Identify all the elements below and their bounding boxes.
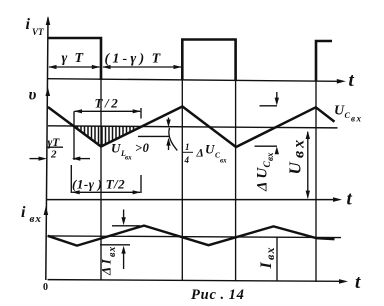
svg-text:υ: υ — [29, 87, 37, 104]
svg-text:4: 4 — [184, 155, 190, 165]
wire (1-gamma)T dimension line — [103, 66, 181, 68]
wire T/2 right arrowhead — [133, 109, 141, 113]
wire deltaU_C dimension up arrow — [276, 150, 278, 153]
node peak tick bottom plot — [112, 225, 140, 227]
node tick x=71.3 for (1-gamma)T/2 — [70, 165, 72, 193]
node tick line quarter-deltaU level — [138, 135, 170, 137]
wire deltaI down arrow — [123, 210, 125, 219]
node hatched area U_L>0 — [78, 126, 134, 146]
svg-text:2: 2 — [50, 149, 57, 161]
wire T/2 left arrowhead — [74, 109, 82, 113]
node average current line — [48, 236, 341, 238]
wire quarter-deltaU small up arrow — [168, 144, 170, 150]
svg-text:вх: вх — [125, 154, 132, 162]
wire gammaT/2 right outside arrow — [80, 158, 91, 160]
node tick x=141 for (1-gamma)T/2 — [140, 175, 142, 193]
node t-axis of bottom plot — [48, 280, 342, 282]
svg-text:U: U — [111, 141, 121, 156]
svg-text:вх: вх — [265, 152, 275, 161]
svg-text:вх: вх — [263, 246, 277, 260]
wire (1-gamma)T/2 dimension line — [72, 191, 140, 193]
svg-text:i: i — [21, 204, 26, 221]
wire (1-gamma)T/2 left arrowhead — [72, 190, 80, 194]
svg-text:Δ U: Δ U — [255, 167, 271, 192]
svg-text:VT: VT — [32, 27, 44, 37]
svg-text:1: 1 — [185, 142, 190, 152]
label I_vx rotated — [258, 246, 277, 269]
wire I_vx level line — [276, 237, 278, 281]
svg-text:Δ I: Δ I — [99, 258, 114, 276]
wire gammaT/2 fraction bar — [48, 146, 64, 148]
svg-text:вх: вх — [30, 213, 42, 225]
wire leader curve to 1/4 deltaU label — [169, 128, 177, 151]
node reference line at pulse1 fall x=101 — [100, 80, 102, 280]
svg-text:0: 0 — [43, 282, 48, 293]
svg-text:вх: вх — [107, 246, 118, 257]
svg-text:Δ: Δ — [196, 148, 204, 160]
wire t-axis arrowhead bottom plot — [339, 279, 348, 284]
wire T/2 dimension line — [75, 110, 141, 112]
svg-text:i: i — [26, 16, 31, 33]
wire quarter-deltaU small down arrow — [168, 118, 170, 122]
wire gamma-T dimension line — [49, 66, 100, 68]
node t-axis of middle plot — [47, 199, 335, 201]
svg-text:C: C — [345, 111, 351, 120]
wire U_vx dimension line with arrows — [307, 132, 309, 198]
node tick x=141 below T/2 — [140, 108, 142, 119]
wire i_vx axis arrow up bottom plot — [44, 206, 49, 215]
wire (1-gamma)T right arrowhead — [174, 65, 182, 69]
svg-text:вх: вх — [351, 114, 363, 124]
svg-text:вх: вх — [291, 137, 308, 158]
node i_VT pulse waveform — [49, 38, 333, 81]
node u(t) triangular waveform — [48, 107, 335, 148]
label deltaU_C_vx rotated — [255, 152, 276, 192]
node reference line at pulse2 fall x=235.6 — [235, 80, 237, 281]
svg-text:t: t — [355, 272, 361, 293]
svg-text:(1-γ ) T/2: (1-γ ) T/2 — [72, 177, 125, 192]
node min tick bottom plot — [100, 244, 130, 246]
wire gammaT/2 left outside arrow — [30, 158, 41, 160]
wire top axis i_VT arrow up — [46, 16, 51, 25]
svg-text:Рис . 14: Рис . 14 — [191, 287, 245, 303]
svg-text:>0: >0 — [135, 141, 150, 155]
svg-text:T / 2: T / 2 — [95, 96, 119, 111]
node peak level tick for deltaU dimension — [260, 105, 278, 107]
node reference line at pulse3 rise x=316 — [315, 81, 317, 282]
wire deltaU_C dimension down arrow — [276, 92, 278, 99]
node i_vx triangular waveform — [48, 226, 335, 246]
node tick x=74 below T/2 — [73, 111, 75, 160]
svg-text:U: U — [205, 142, 215, 157]
node average voltage line — [48, 126, 338, 128]
wire v-axis arrow up middle plot — [46, 87, 51, 96]
svg-text:γ T: γ T — [62, 51, 87, 66]
node reference line at pulse2 rise x=182.3 — [181, 80, 183, 281]
wire t-axis arrowhead top plot — [337, 79, 346, 84]
wire deltaI up arrow — [123, 253, 125, 270]
node left vertical axis line — [46, 18, 48, 281]
wire gamma-T right arrowhead — [92, 65, 100, 69]
label U_vx rotated — [286, 137, 308, 175]
svg-text:вх: вх — [220, 157, 227, 165]
label deltaI_vx rotated — [99, 246, 119, 276]
wire (1-gamma)T/2 right arrowhead — [133, 190, 141, 194]
node t-axis of top plot — [48, 79, 339, 82]
svg-text:t: t — [349, 70, 355, 91]
wire 1/4 fraction bar — [183, 151, 194, 153]
svg-text:U: U — [334, 104, 345, 119]
svg-text:γT: γT — [48, 137, 61, 149]
node min level tick for deltaU dimension — [255, 145, 278, 147]
wire (1-gamma)T left arrowhead — [102, 65, 110, 69]
svg-text:(1-γ) T: (1-γ) T — [105, 52, 164, 67]
wire gamma-T left arrowhead — [48, 65, 56, 69]
svg-text:t: t — [347, 189, 353, 210]
svg-text:U: U — [286, 162, 305, 175]
svg-text:I: I — [258, 262, 275, 270]
wire t-axis arrowhead middle plot — [333, 197, 342, 202]
